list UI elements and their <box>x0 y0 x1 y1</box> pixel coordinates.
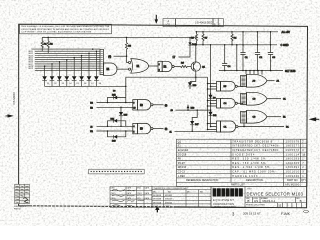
drafting form block <box>110 187 152 208</box>
parts list table frame <box>177 139 308 186</box>
capacitor C2 <box>255 32 260 71</box>
nor gate E1B body <box>131 59 149 74</box>
+5V rail <box>196 31 278 33</box>
size code number row <box>253 197 296 203</box>
diode D13 stub <box>187 105 189 111</box>
matrix column D6 <box>81 55 83 57</box>
conversion chart <box>152 187 211 208</box>
nand gate E5 body <box>221 99 236 109</box>
resistor R9 <box>181 65 188 67</box>
nand gate E4 pins <box>217 82 221 92</box>
diode D17 jog <box>192 110 197 121</box>
or gate E7 input bar <box>241 76 247 87</box>
nand gate E4 body <box>221 82 236 92</box>
wire E5 out <box>237 102 243 104</box>
nand gate E3 pin box <box>133 123 138 133</box>
diode return rail <box>45 85 126 87</box>
wire matrix common to gate rail <box>126 76 208 78</box>
wire E2B out <box>153 104 164 106</box>
diode D15 <box>120 107 122 109</box>
or gate E8 body <box>247 92 268 105</box>
left margin fold arrow <box>8 114 14 117</box>
bus line BD05 <box>35 59 100 61</box>
or gate E9 input bar <box>241 112 247 124</box>
or gate E7 body <box>247 74 268 87</box>
nand gate E2 pin box <box>158 61 162 71</box>
resistor R5 <box>196 31 198 33</box>
and gate E1 body <box>103 63 117 75</box>
node K input wire <box>97 130 133 132</box>
nor gate E1B input bubbles <box>129 61 131 63</box>
bus line BD09 <box>35 67 100 69</box>
revision strip small cells <box>213 19 218 27</box>
capacitor C3 <box>268 32 273 71</box>
matrix column D1 <box>44 65 46 67</box>
wire Q1 emitter <box>190 71 196 81</box>
right margin fold arrow <box>309 117 317 121</box>
bus line BD08 <box>35 65 100 67</box>
resistor R1 <box>41 37 43 41</box>
capacitor C4 <box>222 45 227 71</box>
wire E6 out long <box>238 126 284 128</box>
notice box <box>20 24 112 34</box>
matrix column D3 <box>59 61 61 63</box>
node E input wire <box>97 106 133 108</box>
wire matrix vertical <box>125 77 127 102</box>
bus line BD01 <box>35 50 100 52</box>
jumper diode D14B loop <box>108 121 126 127</box>
bus line BD04 <box>35 57 100 59</box>
matrix column D2 <box>51 63 53 65</box>
or gate E9 body <box>247 110 268 123</box>
title block frame <box>211 187 307 208</box>
gnd rail <box>190 44 277 46</box>
revision strip number box <box>176 19 214 27</box>
matrix column D4 <box>66 59 68 61</box>
wire E4 out <box>237 85 243 87</box>
diode D10 <box>189 81 191 84</box>
diode D11 <box>210 110 212 112</box>
diode D9 <box>210 93 212 95</box>
node 11 wire <box>175 130 217 132</box>
bus labels <box>29 51 33 70</box>
bus rail <box>219 70 283 72</box>
bus line BD03 <box>35 55 100 57</box>
contact finger strip <box>89 169 145 174</box>
resistor R2 <box>47 37 49 39</box>
bus line BD10 <box>35 69 100 71</box>
wire nor out <box>149 65 158 67</box>
jumper diode D12 loop <box>108 98 126 103</box>
wire E3 out <box>153 128 164 130</box>
pen arrow mark <box>155 205 159 210</box>
matrix column D5 <box>73 57 75 59</box>
bottom border dash erase <box>32 206 176 207</box>
wire E1 out <box>117 68 129 70</box>
wire E7 out <box>267 80 275 82</box>
matrix column D7 <box>88 53 90 55</box>
node (4) stub <box>126 55 128 57</box>
sheet border frame <box>19 24 308 208</box>
nand gate E6 body <box>221 121 236 132</box>
resistor R4 <box>231 31 233 33</box>
feeder rail B <box>210 45 212 127</box>
wire E8 out <box>267 98 281 100</box>
bus line BD06 <box>35 61 100 63</box>
capacitor C1 <box>240 32 245 71</box>
form signatures <box>112 189 144 206</box>
jumper diode D16 loop <box>108 131 126 137</box>
diode labels <box>47 83 101 85</box>
node J input wire <box>97 125 133 127</box>
matrix column D8 <box>96 50 98 52</box>
wire to R9 <box>174 66 180 68</box>
or gate E8 input bar <box>241 94 247 105</box>
bottom-left corner stamp grid <box>15 184 30 203</box>
nand gate E6 pins <box>217 121 221 132</box>
revision strip box A/CS <box>163 19 223 27</box>
diode D14 top <box>189 37 191 39</box>
resistor R7 <box>202 31 204 33</box>
node D input wire <box>97 102 133 104</box>
wire R9 to Q1 <box>187 66 191 68</box>
node 10 wire <box>176 109 211 111</box>
nand gate E3 body <box>138 123 151 133</box>
bus line B <box>32 48 101 50</box>
transistor Q1 <box>191 62 200 71</box>
wire gnd drop <box>236 45 238 71</box>
nand gate E2B pin box <box>133 100 138 110</box>
bus line BD02 <box>35 52 100 54</box>
DEC digital logo squares <box>213 188 243 196</box>
nand gate E2B body <box>138 100 151 110</box>
wire E9 out <box>267 116 281 118</box>
wire +5V feed line A <box>42 36 196 38</box>
top margin fold arrow <box>155 19 159 23</box>
bus line BD07 <box>35 63 100 65</box>
bus feeder stubs <box>246 71 262 75</box>
resistor R6 <box>126 37 128 39</box>
and gate E1 input bar <box>100 49 103 74</box>
feeder rail A <box>207 77 209 129</box>
wire Q1 collector <box>195 45 197 62</box>
nand gate E2 body <box>162 61 172 71</box>
nand gate E5 pins <box>217 99 221 109</box>
